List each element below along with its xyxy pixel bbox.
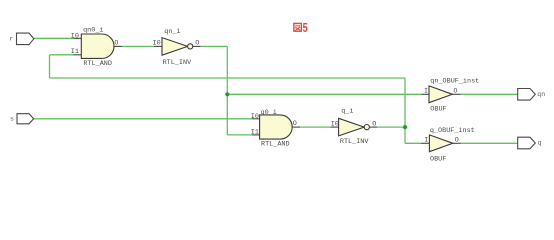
pin stub I0 of qn0_i [73, 37, 81, 39]
svg-text:s: s [10, 115, 14, 122]
svg-text:O: O [293, 120, 297, 128]
pin stub O of q_i [369, 126, 377, 128]
svg-text:O: O [455, 137, 459, 145]
inverter triangle qn_i [162, 38, 188, 56]
buffer triangle qn_OBUF_inst [429, 86, 452, 103]
svg-text:q_i: q_i [341, 108, 353, 116]
pin stub I0 of q_i [331, 126, 339, 128]
wire net r: port r to qn0_i pin I0 [34, 37, 74, 39]
wire net q: horizontal from q_i output to junction [377, 126, 405, 128]
svg-text:q0_i: q0_i [261, 109, 277, 117]
buffer triangle q_OBUF_inst [429, 135, 452, 152]
svg-text:qn_i: qn_i [164, 28, 180, 36]
svg-text:qn0_i: qn0_i [83, 27, 103, 35]
svg-text:qn_OBUF_inst: qn_OBUF_inst [430, 77, 479, 85]
output port q [518, 137, 542, 149]
junction node on net q [403, 125, 407, 129]
wire net q: feedback long horizontal leftward [50, 77, 406, 79]
pin stub I1 of q0_i [252, 134, 260, 136]
svg-text:I0: I0 [71, 33, 79, 41]
svg-text:q: q [538, 139, 542, 146]
svg-text:RTL_INV: RTL_INV [340, 138, 369, 146]
svg-text:I: I [424, 88, 428, 96]
wire net qn: vertical down to q0_i pin I1 level [226, 46, 228, 134]
AND gate body qn0_i [81, 34, 114, 58]
pin stub I0 of q0_i [252, 118, 260, 120]
svg-text:OBUF: OBUF [430, 156, 446, 164]
and-gate qn0_i (RTL_AND) [71, 27, 122, 68]
svg-text:OBUF: OBUF [430, 106, 446, 114]
svg-text:q_OBUF_inst: q_OBUF_inst [430, 127, 475, 135]
pin stub O of q_OBUF_inst [453, 142, 461, 144]
svg-text:RTL_AND: RTL_AND [261, 141, 290, 149]
wire net qn: horizontal from qn_i output [201, 45, 228, 47]
svg-text:I0: I0 [251, 113, 259, 121]
AND gate body q0_i [260, 115, 293, 139]
pin stub I of qn_OBUF_inst [421, 93, 429, 95]
wire net q: feedback vertical up from junction [404, 78, 406, 127]
pin stub I0 of qn_i [154, 45, 162, 47]
svg-text:O: O [114, 40, 118, 48]
caption 图5 (red figure label) [294, 21, 308, 35]
inverter qn_i (RTL_INV) [153, 28, 201, 67]
svg-text:r: r [9, 35, 13, 42]
svg-text:5: 5 [303, 21, 308, 35]
svg-text:I1: I1 [71, 48, 79, 56]
inverter bubble q_i [364, 125, 369, 130]
wire net qn0_i_O: qn0_i output to qn_i input [121, 45, 154, 47]
pin stub O of qn0_i [114, 45, 122, 47]
buffer qn_OBUF_inst (OBUF) [421, 77, 479, 113]
inverter triangle q_i [339, 118, 365, 136]
output port qn [518, 89, 546, 101]
inverter q_i (RTL_INV) [331, 108, 377, 146]
wire net q: feedback vertical up at left [49, 55, 51, 78]
inverter bubble qn_i [188, 44, 193, 49]
svg-text:O: O [453, 88, 457, 96]
pin stub O of q0_i [292, 126, 300, 128]
wire net q0_i_O: q0_i output to q_i input [300, 126, 330, 128]
junction node on net qn [225, 92, 229, 96]
pin stub O of qn_i [193, 45, 201, 47]
and-gate q0_i (RTL_AND) [251, 109, 300, 148]
wire net s: port s to q0_i pin I0 [34, 118, 252, 120]
wire net q: vertical down from junction [404, 127, 406, 143]
input port r [9, 33, 34, 45]
svg-text:I: I [424, 137, 428, 145]
svg-text:I1: I1 [251, 129, 259, 137]
svg-text:RTL_AND: RTL_AND [83, 60, 112, 68]
svg-text:I0: I0 [153, 40, 161, 48]
wire net qn_OBUF_O: qn_OBUF output to port qn [461, 93, 518, 95]
wire net q: horizontal into q_OBUF input [405, 142, 421, 144]
svg-text:I0: I0 [331, 120, 339, 128]
wire net q_OBUF_O: q_OBUF output to port q [461, 142, 518, 144]
pin stub I of q_OBUF_inst [421, 142, 429, 144]
buffer q_OBUF_inst (OBUF) [421, 127, 475, 163]
svg-text:qn: qn [537, 91, 545, 98]
wire net qn: horizontal into q0_i pin I1 [227, 134, 251, 136]
svg-text:O: O [372, 120, 376, 128]
svg-text:O: O [195, 40, 199, 48]
wire net q: feedback horizontal into qn0_i pin I1 [50, 54, 74, 56]
svg-text:RTL_INV: RTL_INV [163, 59, 192, 67]
wire net qn: branch right to qn_OBUF input [227, 93, 421, 95]
pin stub I1 of qn0_i [73, 54, 81, 56]
pin stub O of qn_OBUF_inst [452, 93, 461, 95]
input port s [10, 114, 34, 124]
